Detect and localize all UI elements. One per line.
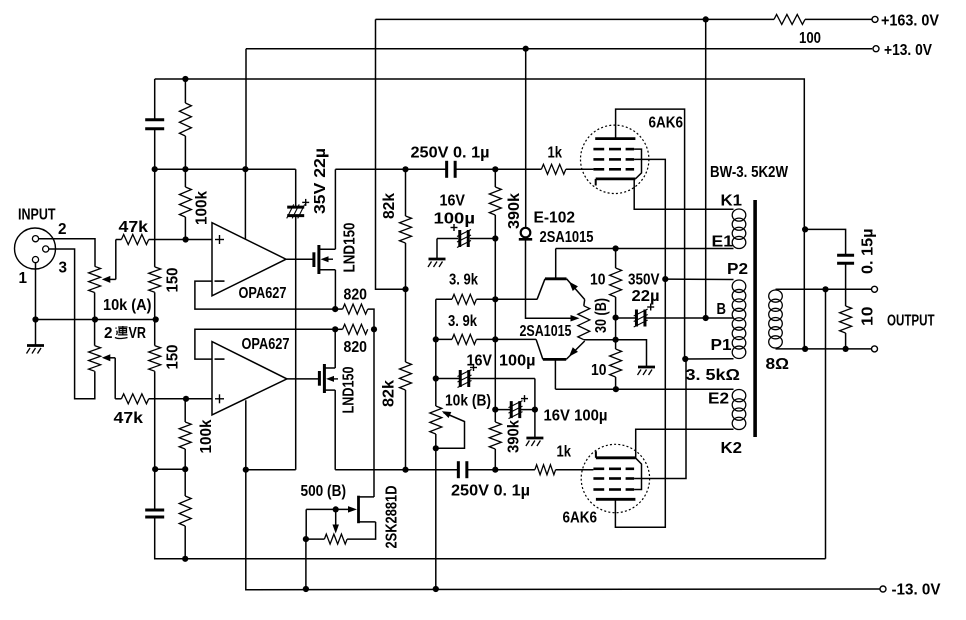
label 100k b bbox=[194, 191, 211, 225]
resistor 10 (lower) bbox=[610, 349, 622, 377]
resistor 10 (output) bbox=[840, 306, 852, 333]
capacitor 22µ 350V bbox=[634, 304, 655, 328]
svg-text:P1: P1 bbox=[711, 337, 732, 354]
svg-text:350V: 350V bbox=[628, 272, 660, 289]
label 350V bbox=[628, 272, 660, 289]
ground input bbox=[27, 346, 45, 354]
label 1k (ch1) bbox=[548, 145, 563, 162]
winding P2-B-P1 bbox=[732, 280, 746, 359]
svg-text:10: 10 bbox=[591, 362, 607, 379]
svg-text:6AK6: 6AK6 bbox=[563, 510, 598, 527]
label 3.5kΩ bbox=[686, 367, 741, 384]
label 150 (ch2) bbox=[165, 345, 182, 370]
svg-text:150: 150 bbox=[165, 345, 182, 370]
winding K1-E1 bbox=[732, 209, 746, 249]
label 8Ω bbox=[766, 356, 790, 373]
node spine top bbox=[152, 166, 158, 172]
svg-text:6AK6: 6AK6 bbox=[649, 115, 684, 132]
node 82k top bbox=[402, 166, 408, 172]
wire 100k b leads bbox=[184, 169, 186, 239]
node spine bridge bbox=[152, 466, 158, 472]
capacitor 0.1µ 250V (ch1) bbox=[447, 161, 456, 178]
tube V1 6AK6 bbox=[581, 125, 649, 193]
label 16V (i) bbox=[440, 193, 466, 210]
label INPUT bbox=[18, 207, 56, 224]
label 10 (output) bbox=[860, 307, 877, 327]
label K2 bbox=[721, 440, 743, 457]
wire ground row bbox=[35, 319, 156, 321]
label 82k (ch2) bbox=[381, 380, 398, 407]
node cap(iii) left bbox=[492, 407, 498, 413]
wire sink gate left bbox=[306, 509, 324, 539]
wire spine upper bbox=[154, 169, 156, 267]
svg-text:LND150: LND150 bbox=[341, 367, 358, 414]
svg-text:250V 0. 1µ: 250V 0. 1µ bbox=[451, 483, 530, 500]
svg-text:16V 100µ: 16V 100µ bbox=[544, 408, 608, 425]
wire output return riser bbox=[825, 289, 827, 559]
wire pot2 top bbox=[94, 320, 96, 346]
svg-text:82k: 82k bbox=[381, 193, 398, 219]
label 390k (ch1) bbox=[506, 193, 523, 229]
label 10k (A) bbox=[103, 297, 152, 314]
svg-text:OUTPUT: OUTPUT bbox=[887, 313, 935, 330]
wire +13V feed drop bbox=[245, 49, 247, 170]
label 47k (ch2) bbox=[114, 410, 144, 427]
resistor 3.9k (2) bbox=[452, 334, 476, 344]
resistor 390k (ch1) bbox=[489, 187, 501, 215]
label 30 (B) bbox=[593, 298, 610, 333]
transistor Q1 LND150 bbox=[314, 245, 336, 274]
label 100 bbox=[799, 30, 821, 47]
wire 16V(i) row bbox=[437, 239, 495, 259]
label 10 (lower) bbox=[591, 362, 607, 379]
svg-text:OPA627: OPA627 bbox=[239, 285, 287, 302]
wire bridge bbox=[155, 468, 185, 470]
svg-text:10: 10 bbox=[860, 307, 877, 327]
resistor 820 (ch1) bbox=[343, 304, 368, 314]
resistor 3.9k (1) bbox=[452, 294, 476, 304]
label 390k (ch2) bbox=[506, 420, 523, 453]
wire pin1 to ground bbox=[35, 263, 37, 345]
label pin 3 bbox=[59, 260, 68, 277]
node B+ rail junction bbox=[703, 16, 709, 22]
svg-text:150: 150 bbox=[165, 268, 182, 293]
svg-text:P2: P2 bbox=[727, 261, 748, 278]
node 100k mid (ch2) bbox=[182, 466, 188, 472]
capacitor 100µ 16V (i) bbox=[451, 224, 472, 248]
label 10 (upper) bbox=[590, 272, 606, 289]
svg-text:+163. 0V: +163. 0V bbox=[881, 13, 940, 30]
svg-text:10: 10 bbox=[590, 272, 606, 289]
svg-text:820: 820 bbox=[344, 339, 368, 356]
label E2 bbox=[708, 391, 729, 408]
terminal +13.0V bbox=[873, 46, 879, 52]
node op1+ input bbox=[183, 236, 189, 242]
wire ch2 supply row bbox=[246, 469, 458, 471]
svg-text:1: 1 bbox=[19, 270, 28, 287]
svg-text:2SK2881D: 2SK2881D bbox=[384, 486, 401, 549]
terminal OUTPUT cold bbox=[872, 346, 878, 352]
label 2連VR bbox=[104, 325, 146, 342]
node 16V cap1 node bbox=[492, 235, 498, 241]
label 16V (ii) bbox=[467, 353, 493, 370]
wire CRD stem bbox=[526, 239, 572, 318]
ground 16V(ii) bbox=[526, 438, 544, 446]
label +163.0V bbox=[881, 13, 940, 30]
capacitor input filter (ch2) bbox=[145, 510, 164, 517]
wire spine cap1 leads bbox=[154, 79, 156, 169]
resistor 100 (B+ dropper) bbox=[774, 14, 805, 24]
wiper 10k(B) bbox=[436, 411, 465, 448]
label LND150 (ch1) bbox=[342, 223, 359, 273]
svg-text:390k: 390k bbox=[506, 420, 523, 453]
node M2 source/820 bbox=[332, 326, 338, 332]
node 10 upper top bbox=[613, 245, 619, 251]
wire 820-2 left bbox=[335, 328, 342, 330]
node +13V feed bbox=[242, 166, 248, 172]
label OUTPUT bbox=[887, 313, 935, 330]
node sink gate bbox=[333, 506, 339, 512]
resistor 390k (ch2) bbox=[489, 422, 501, 449]
label 100k c bbox=[198, 419, 215, 453]
wire +163V supply rail bbox=[376, 18, 872, 20]
svg-text:K2: K2 bbox=[721, 440, 743, 457]
label OPA627 (ch1) bbox=[239, 285, 287, 302]
svg-text:-13. 0V: -13. 0V bbox=[892, 582, 942, 599]
node 390k2 bottom bbox=[492, 467, 498, 473]
wire feedback line bbox=[155, 79, 805, 350]
svg-text:35V 22µ: 35V 22µ bbox=[312, 148, 329, 214]
wire spine mid1 bbox=[154, 292, 156, 345]
resistor 100k a bbox=[179, 103, 191, 136]
label OPA627 (ch2) bbox=[242, 336, 290, 353]
resistor 10 (upper) bbox=[610, 268, 622, 297]
node pin1 row junction bbox=[32, 316, 38, 322]
svg-text:10k (A): 10k (A) bbox=[103, 297, 152, 314]
label 35V 22µ bbox=[312, 148, 329, 214]
node P1 junction bbox=[682, 356, 688, 362]
svg-text:390k: 390k bbox=[506, 193, 523, 229]
label 82k (ch1) bbox=[381, 193, 398, 219]
svg-text:8Ω: 8Ω bbox=[766, 356, 790, 373]
winding E2-K2 bbox=[732, 390, 746, 430]
pin 3 bbox=[43, 246, 49, 252]
wire pot1 bottom bbox=[94, 293, 96, 320]
node fb bottom bbox=[802, 346, 808, 352]
node op2+ input bbox=[183, 396, 189, 402]
svg-text:250V 0. 1µ: 250V 0. 1µ bbox=[411, 145, 490, 162]
node 390k top (ch1) bbox=[492, 166, 498, 172]
label 250V 0.1µ (ch2) bbox=[451, 483, 530, 500]
svg-text:500 (B): 500 (B) bbox=[301, 483, 347, 500]
wire op2 V- pin bbox=[245, 400, 247, 469]
wire V1 g2 bbox=[634, 159, 665, 279]
node 10kB/-13V bbox=[433, 586, 439, 592]
label 2SA1015 (sensor) bbox=[540, 229, 594, 246]
potentiometer 10k(B) bbox=[430, 406, 442, 434]
capacitor 0.15µ bbox=[837, 255, 854, 263]
svg-text:100k: 100k bbox=[194, 191, 211, 225]
wire B+ riser bbox=[705, 19, 707, 318]
resistor 500(B) bbox=[324, 534, 347, 544]
winding secondary 8Ω bbox=[769, 290, 783, 348]
node spine/ground row bbox=[153, 316, 159, 322]
label 6AK6 (V2) bbox=[563, 510, 598, 527]
wire zobel bottom lead bbox=[845, 333, 847, 349]
svg-text:10k (B): 10k (B) bbox=[445, 393, 491, 410]
wire spine bottom bbox=[155, 518, 826, 559]
label 0.15µ bbox=[860, 229, 877, 275]
label K1 bbox=[721, 193, 743, 210]
label 3.9k (1) bbox=[449, 272, 478, 289]
wire 16V(iii) row bbox=[495, 409, 535, 411]
wire bias center bbox=[615, 318, 617, 340]
ground bias bbox=[638, 367, 656, 375]
svg-text:82k: 82k bbox=[381, 380, 398, 407]
node 10kB top bbox=[433, 375, 439, 381]
label 6AK6 (V1) bbox=[649, 115, 684, 132]
svg-text:30 (B): 30 (B) bbox=[593, 298, 610, 333]
svg-text:3: 3 bbox=[59, 260, 68, 277]
wire V- drop bbox=[246, 470, 880, 590]
wire B row bbox=[616, 317, 734, 319]
svg-text:47k: 47k bbox=[119, 219, 149, 236]
wire 820-1 left bbox=[335, 308, 342, 310]
pin 1 bbox=[32, 257, 38, 263]
label 500 (B) bbox=[301, 483, 347, 500]
node 390k/3.9k2 bbox=[492, 336, 498, 342]
wire zobel mid bbox=[845, 263, 847, 306]
wire 390k string mid bbox=[494, 299, 496, 422]
wire E1 row bbox=[556, 248, 734, 250]
node bias center top bbox=[613, 315, 619, 321]
terminal +163.0V bbox=[872, 16, 878, 22]
resistor 47k (ch1) bbox=[121, 235, 148, 245]
capacitor 0.1µ 250V (ch2) bbox=[458, 461, 467, 478]
svg-text:0. 15µ: 0. 15µ bbox=[860, 229, 877, 275]
wire ch2 grid row bbox=[467, 469, 594, 471]
wire 3.9k2 row bbox=[436, 338, 536, 340]
wire secondary bottom bbox=[776, 348, 872, 350]
wire zobel top bbox=[805, 229, 846, 255]
label 2SA1015 (pair) bbox=[520, 323, 572, 340]
wire 47k2 left bbox=[115, 398, 121, 400]
node cap(iii) right bbox=[532, 407, 538, 413]
potentiometer 10k(A) upper bbox=[89, 266, 101, 292]
svg-text:2: 2 bbox=[58, 221, 67, 238]
ground 16V(i) bbox=[428, 259, 446, 267]
wire pin3 to pot2 bbox=[49, 249, 95, 399]
node pot junction bbox=[92, 316, 98, 322]
node sec top tap bbox=[822, 286, 828, 292]
node 500B left bbox=[303, 536, 309, 542]
node ch2 V- node bbox=[243, 467, 249, 473]
wire secondary top bbox=[776, 288, 872, 290]
wire M1 source bbox=[334, 270, 336, 309]
resistor 47k (ch2) bbox=[121, 394, 148, 404]
label BW-3.5K2W bbox=[710, 164, 788, 181]
wire 47k1 left bbox=[116, 239, 122, 241]
wire 82k lower lead bbox=[405, 390, 407, 470]
label 250V 0.1µ (ch1) bbox=[411, 145, 490, 162]
svg-text:2SA1015: 2SA1015 bbox=[520, 323, 572, 340]
label 100µ (i) bbox=[434, 211, 476, 228]
wire 820-1 right bbox=[368, 309, 374, 329]
label 820 (ch2) bbox=[344, 339, 368, 356]
wire CRD feed bbox=[525, 49, 527, 228]
svg-text:1k: 1k bbox=[557, 444, 572, 461]
svg-text:22µ: 22µ bbox=[632, 288, 660, 305]
label 47k (ch1) bbox=[119, 219, 149, 236]
op-amp U1 OPA627 bbox=[212, 223, 286, 296]
wire op2 output bbox=[287, 378, 319, 380]
label 820 (ch1) bbox=[344, 287, 368, 304]
wire M1 drain riser bbox=[334, 169, 336, 249]
resistor 150 (ch1) bbox=[149, 267, 161, 292]
svg-text:3. 5kΩ: 3. 5kΩ bbox=[686, 367, 741, 384]
wire 435 string bbox=[435, 299, 437, 589]
node feedback/100k junction bbox=[182, 76, 188, 82]
capacitor 22µ 35V bbox=[287, 199, 310, 219]
svg-text:16V: 16V bbox=[440, 193, 466, 210]
resistor 820 (ch2) bbox=[343, 324, 368, 334]
wire +163V riser to 82k node bbox=[376, 19, 406, 289]
wire V2 g2 bbox=[634, 359, 686, 479]
svg-text:K1: K1 bbox=[721, 193, 743, 210]
wire 10 upper leads bbox=[615, 249, 617, 318]
node fb/zobel top bbox=[802, 226, 808, 232]
node 82k B+ node bbox=[402, 286, 408, 292]
wiper pot1 bbox=[102, 240, 116, 283]
label 10k (B) bbox=[445, 393, 491, 410]
capacitor 100µ 16V (iii) bbox=[509, 395, 529, 419]
svg-text:3. 9k: 3. 9k bbox=[449, 272, 478, 289]
svg-text:2SA1015: 2SA1015 bbox=[540, 229, 594, 246]
node M1 source/820 bbox=[332, 306, 338, 312]
node 10 lower bottom bbox=[613, 386, 619, 392]
svg-text:E-102: E-102 bbox=[534, 210, 576, 227]
node 82k bottom bbox=[402, 467, 408, 473]
svg-text:LND150: LND150 bbox=[342, 223, 359, 273]
wire 100k d leads bbox=[184, 469, 186, 559]
svg-text:E2: E2 bbox=[708, 391, 729, 408]
label 3.9k (2) bbox=[448, 313, 477, 330]
wire V1 cathode to K1 bbox=[634, 179, 733, 209]
label -13.0V bbox=[892, 582, 942, 599]
wire pin2 to pot1 bbox=[39, 239, 95, 267]
svg-text:BW-3. 5K2W: BW-3. 5K2W bbox=[710, 164, 788, 181]
svg-text:16V: 16V bbox=[467, 353, 493, 370]
wire P1 row bbox=[685, 358, 733, 360]
label pin 2 bbox=[58, 221, 67, 238]
wire VR top bbox=[583, 300, 586, 306]
node P2 junction bbox=[662, 276, 668, 282]
resistor 100k b bbox=[179, 187, 191, 217]
label LND150 (ch2) bbox=[341, 367, 358, 414]
node zobel bottom bbox=[843, 346, 849, 352]
svg-text:E1: E1 bbox=[712, 234, 734, 251]
transistor Q4 2SA1015 (lower) bbox=[536, 339, 585, 389]
label 16V 100µ (iii) bbox=[544, 408, 608, 425]
tube V2 6AK6 bbox=[581, 444, 649, 512]
label B bbox=[717, 301, 727, 318]
wire 10 lower leads bbox=[615, 340, 617, 390]
svg-text:100µ: 100µ bbox=[499, 353, 536, 370]
resistor 1k (ch1) bbox=[541, 164, 565, 174]
wiper pot2 bbox=[102, 354, 115, 399]
node B+ tap bbox=[703, 315, 709, 321]
node 820 junction bbox=[371, 326, 377, 332]
node 500B/-13V bbox=[303, 586, 309, 592]
wire +13V node row bbox=[155, 168, 296, 170]
svg-text:100k: 100k bbox=[198, 419, 215, 453]
diode CRD E-102 bbox=[519, 228, 532, 240]
label 150 (ch1) bbox=[165, 268, 182, 293]
resistor 1k (ch2) bbox=[535, 465, 556, 475]
wire spine mid2 bbox=[154, 371, 156, 510]
svg-text:B: B bbox=[717, 301, 727, 318]
label P2 bbox=[727, 261, 748, 278]
label +13.0V bbox=[884, 42, 933, 59]
svg-text:VR: VR bbox=[129, 325, 147, 342]
resistor 82k (ch2) bbox=[400, 362, 412, 390]
resistor 100k c bbox=[179, 422, 191, 449]
svg-text:1k: 1k bbox=[548, 145, 563, 162]
node 10kB bottom bbox=[433, 445, 439, 451]
wire sink riser bbox=[373, 329, 375, 497]
label 100µ (ii) bbox=[499, 353, 536, 370]
potentiometer 30(B) bbox=[578, 306, 590, 340]
wire 100k c leads bbox=[184, 399, 186, 469]
potentiometer 10k(A) lower bbox=[89, 346, 101, 372]
node 390k/3.9k1 bbox=[492, 296, 498, 302]
label P1 bbox=[711, 337, 732, 354]
wire 47k2 to op2+ bbox=[149, 398, 212, 400]
capacitor 100µ 16V (ii) bbox=[458, 364, 478, 388]
wire bias ground link bbox=[616, 340, 647, 366]
label 2SK2881D bbox=[384, 486, 401, 549]
wire drain row ch1 bbox=[335, 168, 593, 170]
label 22µ (350V) bbox=[632, 288, 660, 305]
node 100k d bottom bbox=[182, 556, 188, 562]
wire VR bottom row bbox=[584, 339, 616, 341]
label 1k (ch2) bbox=[557, 444, 572, 461]
wiper 30(B) bbox=[571, 315, 580, 322]
svg-text:820: 820 bbox=[344, 287, 368, 304]
wire V2 plate to P2 bbox=[615, 279, 665, 527]
wire op1 V+ pin bbox=[244, 169, 246, 239]
svg-text:INPUT: INPUT bbox=[18, 207, 56, 224]
terminal -13.0V bbox=[880, 586, 886, 592]
svg-text:OPA627: OPA627 bbox=[242, 336, 290, 353]
wiper 500(B) bbox=[332, 509, 339, 533]
wire 3.9k1 row bbox=[436, 298, 538, 300]
label pin 1 bbox=[19, 270, 28, 287]
wire V1 plate bbox=[616, 109, 685, 359]
wire sink source bbox=[347, 522, 376, 539]
svg-text:100µ: 100µ bbox=[434, 211, 476, 228]
wire P2 row bbox=[665, 278, 733, 280]
wire op1 feedback bbox=[195, 281, 335, 309]
resistor 100k d bbox=[179, 496, 191, 526]
transistor Q5 2SK2881D bbox=[306, 496, 375, 524]
capacitor input filter (ch1) bbox=[145, 120, 164, 129]
wire E2 row bbox=[555, 388, 733, 390]
wire 500B to -13V bbox=[305, 539, 307, 589]
wire 47k1 to op1+ bbox=[149, 239, 212, 241]
wire 82k mid bbox=[405, 243, 407, 362]
node bias center bottom bbox=[613, 337, 619, 343]
